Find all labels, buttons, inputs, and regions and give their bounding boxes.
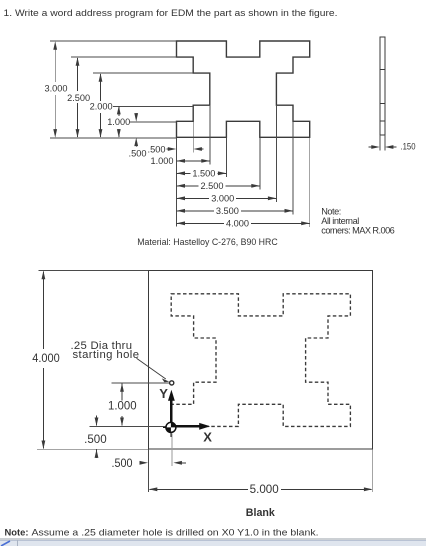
extension line x=4.0 bbox=[309, 137, 311, 227]
dim 4.000 (horizontal row) bbox=[177, 219, 310, 229]
svg-text:3.000: 3.000 bbox=[211, 194, 234, 204]
svg-text:.500: .500 bbox=[129, 148, 147, 158]
bottom strip bbox=[0, 540, 426, 546]
bottom extension lines (vertical) bbox=[177, 105, 310, 227]
svg-text:Material: Hastelloy C-276, B90: Material: Hastelloy C-276, B90 HRC bbox=[137, 237, 278, 247]
part outline (dashed, in blank) bbox=[171, 294, 350, 427]
svg-text:3.500: 3.500 bbox=[216, 206, 239, 216]
extension line y=2.5 bbox=[71, 56, 177, 58]
dim 1.000 (horizontal row) bbox=[151, 156, 210, 166]
svg-text:.500: .500 bbox=[84, 434, 107, 446]
svg-text:starting hole: starting hole bbox=[73, 349, 140, 361]
extension line at hole level (y=1.0) bbox=[112, 382, 169, 384]
svg-text:Note:: Note: bbox=[321, 206, 341, 216]
svg-text:4.000: 4.000 bbox=[226, 219, 249, 229]
note (internal corners) bbox=[321, 206, 395, 235]
svg-text:1.000: 1.000 bbox=[108, 400, 137, 412]
extension line at origin level bbox=[90, 425, 169, 427]
svg-text:All internal: All internal bbox=[321, 216, 359, 226]
dim .150 bbox=[369, 135, 416, 152]
extension line x=0.5 bbox=[192, 121, 194, 152]
starting hole bbox=[170, 381, 174, 385]
origin extension line (gray, downward) bbox=[171, 434, 173, 467]
baseline y=0 (part bottom extended) bbox=[50, 137, 177, 139]
svg-text:.500: .500 bbox=[112, 458, 133, 470]
svg-text:X: X bbox=[203, 430, 212, 445]
svg-text:Y: Y bbox=[159, 386, 168, 401]
svg-text:5.000: 5.000 bbox=[250, 484, 279, 496]
svg-text:1.000: 1.000 bbox=[151, 156, 174, 166]
dim 2.500 bbox=[67, 57, 90, 137]
side view step lines bbox=[380, 68, 385, 70]
part outline (top view) bbox=[177, 41, 310, 137]
extension line x=2.5 bbox=[259, 137, 261, 189]
svg-text:1.500: 1.500 bbox=[192, 169, 215, 179]
svg-text:2.500: 2.500 bbox=[201, 181, 224, 191]
svg-text:2.000: 2.000 bbox=[90, 102, 113, 112]
svg-text:2.500: 2.500 bbox=[67, 93, 90, 103]
strip vertical separator bbox=[17, 540, 19, 546]
svg-text:1.000: 1.000 bbox=[107, 117, 130, 127]
dim 2.000 bbox=[90, 73, 113, 137]
svg-text:.500: .500 bbox=[148, 144, 166, 154]
dim 1.500 (horizontal row) bbox=[177, 169, 227, 179]
dim 4.000 (blank height) bbox=[32, 271, 148, 450]
svg-text:Blank: Blank bbox=[246, 507, 276, 519]
extension line y=0.5 bbox=[130, 121, 177, 123]
svg-text:Assume a .25 diameter hole is: Assume a .25 diameter hole is drilled on… bbox=[32, 527, 319, 537]
dim 3.000 bbox=[45, 41, 68, 137]
extension line y=3.0 (part top) bbox=[50, 40, 177, 42]
side view outline bbox=[380, 37, 385, 135]
extension line x=1.5 bbox=[225, 137, 227, 177]
dim 2.500 (horizontal row) bbox=[177, 181, 260, 191]
dim .500 (left, arrows outside) bbox=[129, 113, 147, 158]
strip blue diagonal mark bbox=[1, 541, 10, 546]
svg-text:3.000: 3.000 bbox=[45, 84, 68, 94]
svg-text:Note:: Note: bbox=[5, 527, 29, 537]
svg-text:4.000: 4.000 bbox=[32, 353, 60, 365]
blank rectangle bbox=[149, 271, 373, 450]
extension line x=3.0 bbox=[275, 105, 277, 202]
dim 1.000 (left) bbox=[107, 106, 130, 138]
strip top border bbox=[0, 540, 426, 542]
Y axis bbox=[159, 386, 175, 427]
dim .500 (horizontal row, arrows outside) bbox=[148, 144, 204, 154]
svg-text:corners: MAX R.006: corners: MAX R.006 bbox=[321, 226, 395, 236]
extension line x=0 bbox=[176, 137, 178, 226]
origin symbol bbox=[163, 422, 176, 436]
dim .500 (bottom drawing, horizontal, arrows outside) bbox=[112, 449, 187, 471]
extension line x=3.5 bbox=[292, 121, 294, 214]
dim 3.000 (horizontal row) bbox=[177, 194, 277, 204]
extension line y=2.0 bbox=[93, 72, 193, 74]
starting hole label bbox=[71, 340, 140, 361]
left extension lines bbox=[50, 41, 193, 138]
dim 5.000 (blank width) bbox=[149, 449, 373, 496]
separator line bbox=[0, 538, 426, 540]
dim 3.500 (horizontal row) bbox=[177, 206, 294, 216]
svg-text:1. Write a word address progra: 1. Write a word address program for EDM … bbox=[4, 8, 338, 19]
extension line x=1.0 bbox=[209, 105, 211, 164]
dim 1.000 (bottom drawing) bbox=[108, 383, 137, 426]
leader to starting hole bbox=[137, 358, 170, 382]
X axis bbox=[171, 423, 212, 445]
dim .500 (bottom drawing, vertical, arrows outside) bbox=[84, 416, 107, 459]
extension line y=1.0 bbox=[113, 106, 193, 108]
svg-text:.150: .150 bbox=[401, 142, 416, 152]
